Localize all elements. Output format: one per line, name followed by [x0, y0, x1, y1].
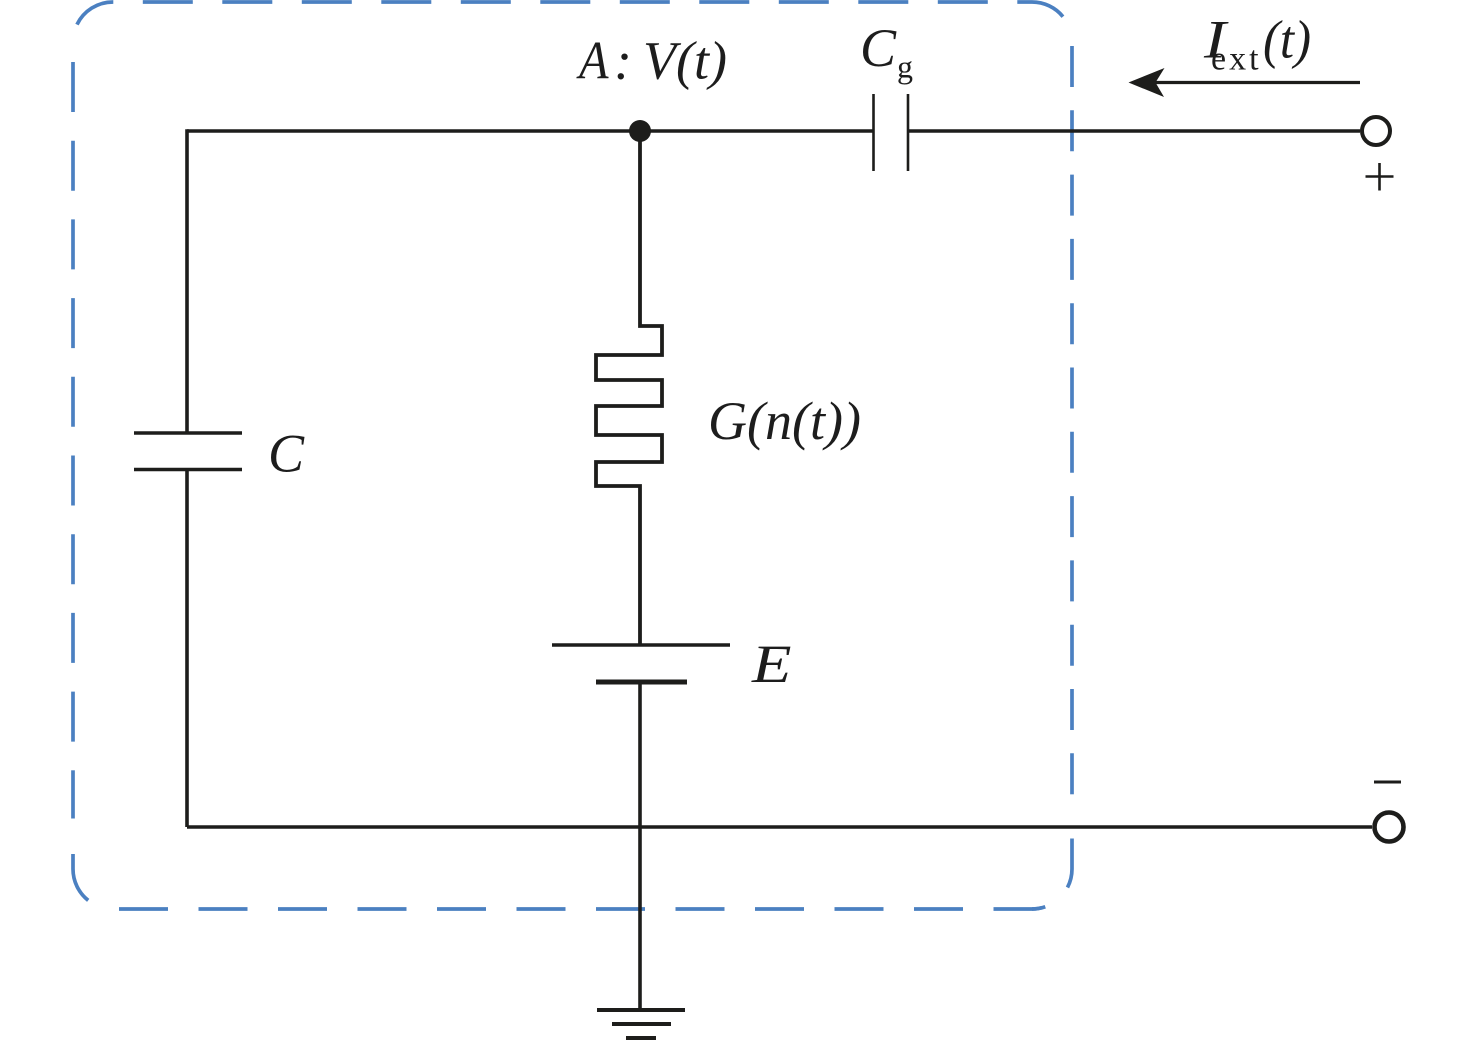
svg-text:ext: ext — [1211, 41, 1262, 78]
svg-text:C: C — [268, 424, 305, 484]
svg-text:g: g — [897, 49, 913, 85]
svg-text:E: E — [751, 634, 792, 694]
svg-text:(t): (t) — [1263, 10, 1311, 70]
svg-text:V(t): V(t) — [643, 31, 727, 91]
svg-text:C: C — [860, 18, 897, 78]
svg-text::: : — [614, 31, 632, 91]
svg-text:A: A — [576, 31, 609, 91]
svg-text:G(n(t)): G(n(t)) — [708, 391, 861, 451]
